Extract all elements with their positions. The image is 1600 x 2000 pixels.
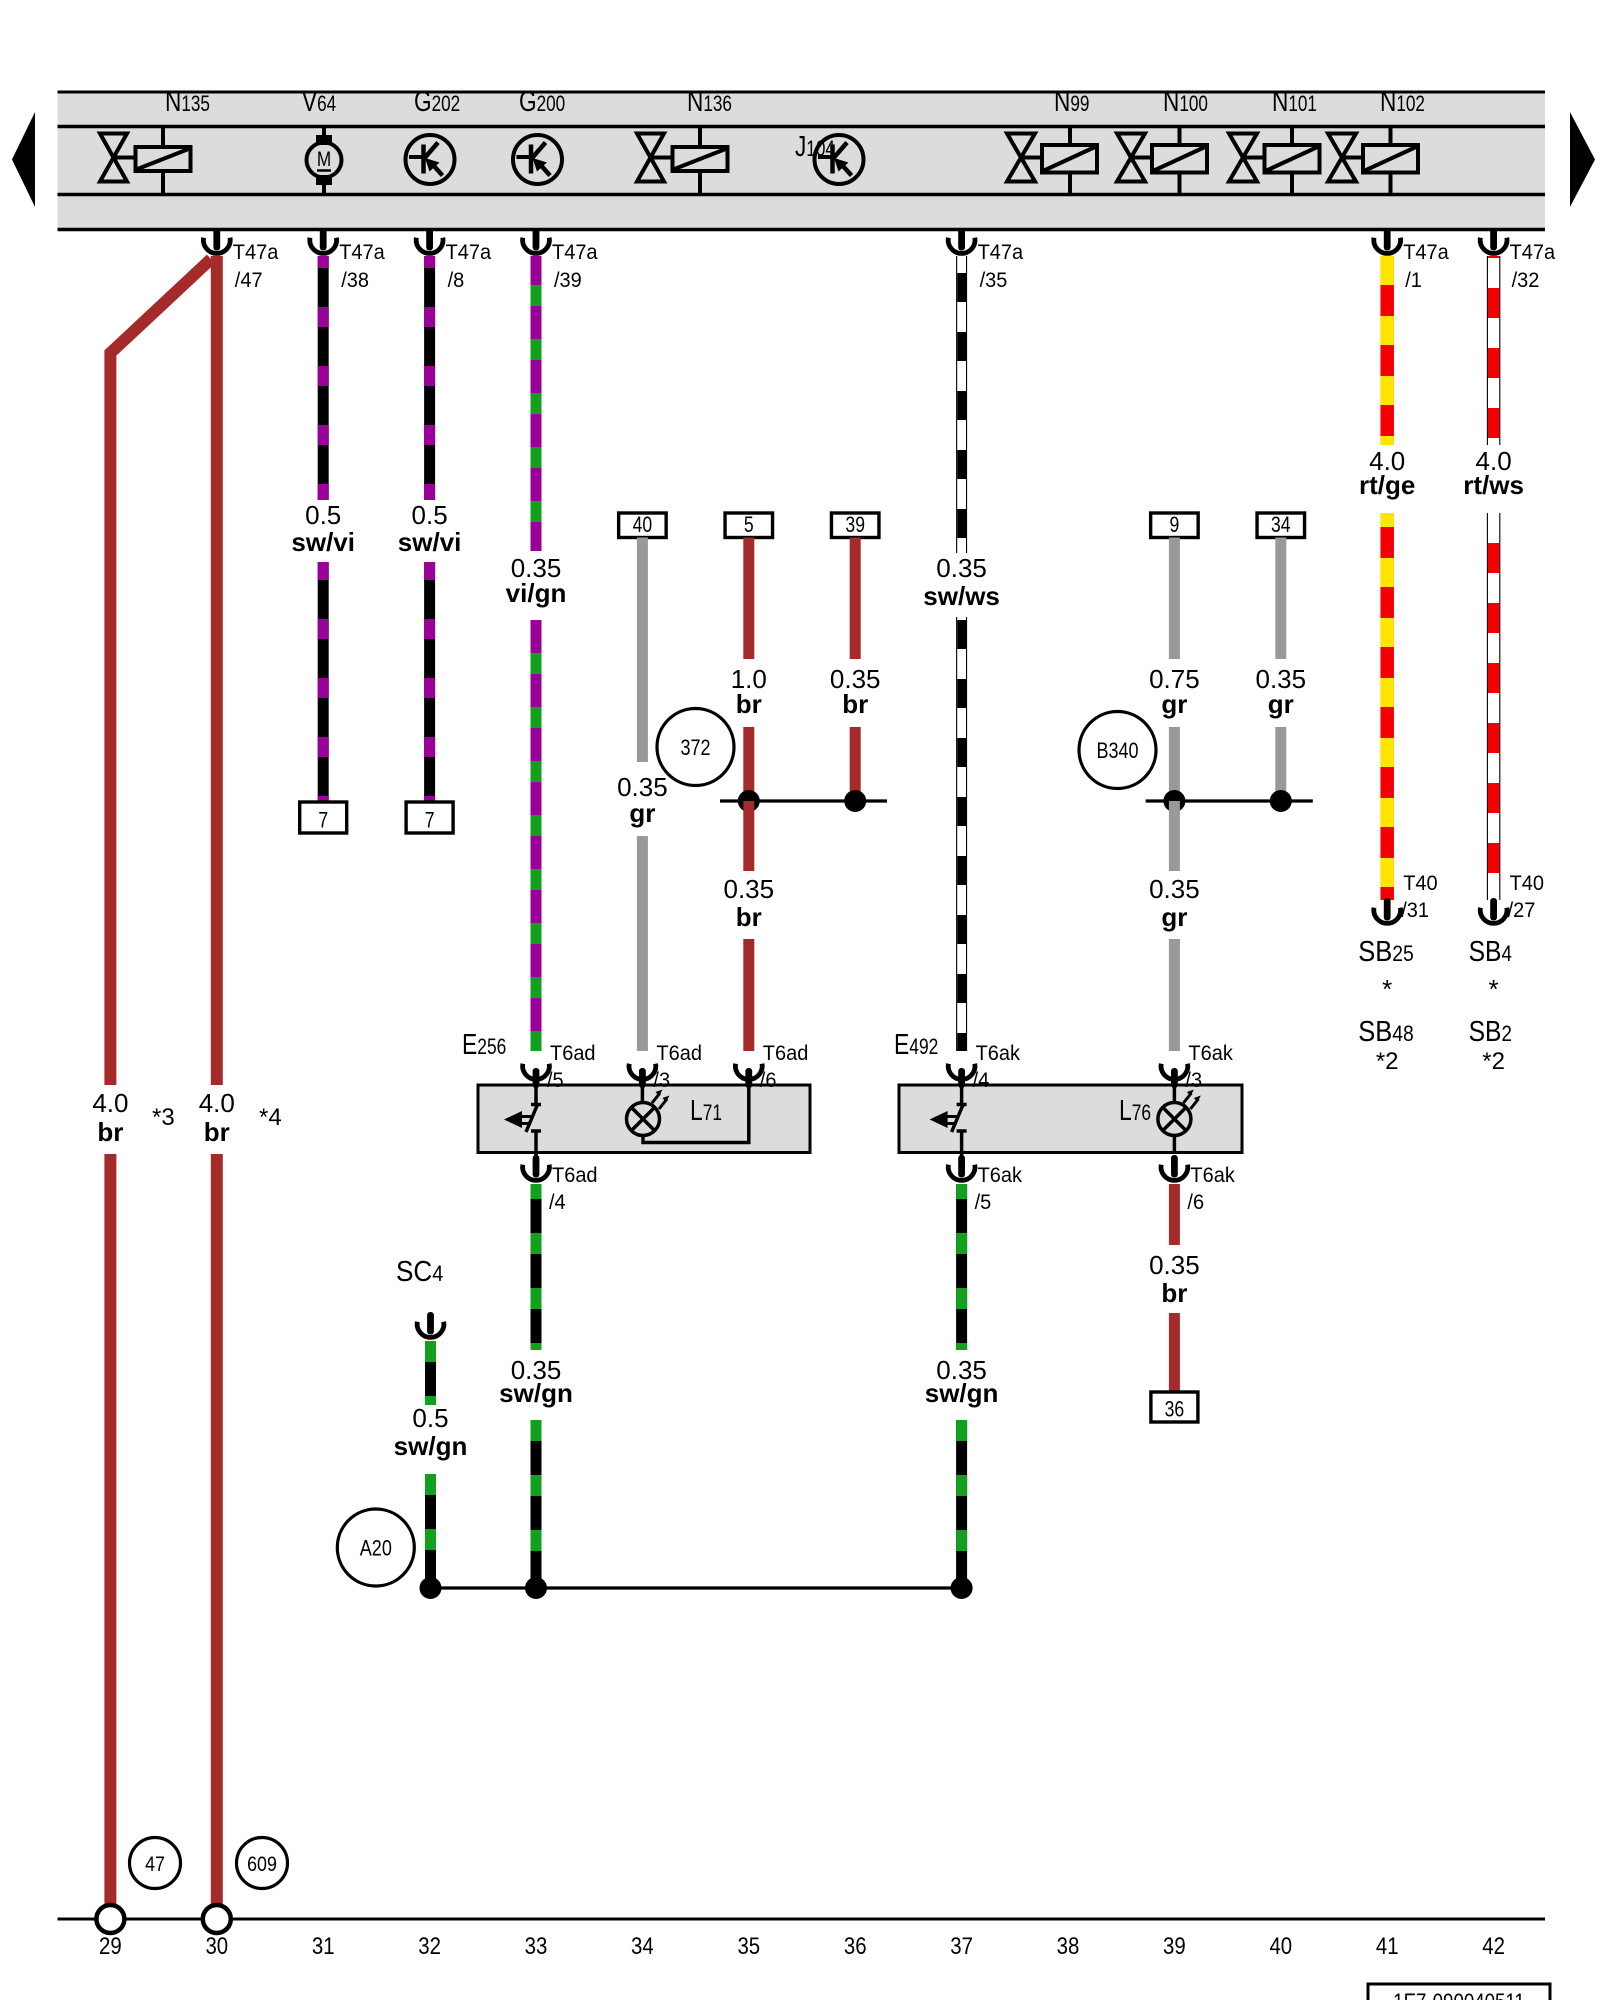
svg-text:40: 40 bbox=[633, 513, 653, 537]
wire 0.35 br track 35 to E256 pin 6 bbox=[743, 939, 754, 1051]
terminal box 5 bbox=[725, 513, 773, 538]
wire 0.35 sw/ws track 37 lower bbox=[956, 617, 967, 1051]
sensor G200 bbox=[513, 84, 565, 184]
svg-text:T6ad: T6ad bbox=[550, 1041, 596, 1065]
svg-text:*2: *2 bbox=[1482, 1048, 1505, 1075]
svg-text:29: 29 bbox=[99, 1932, 122, 1959]
svg-text:A20: A20 bbox=[360, 1537, 392, 1561]
wire 1.0 br track 35 to junction bbox=[743, 727, 754, 801]
svg-text:/1: /1 bbox=[1405, 268, 1422, 292]
svg-text:/27: /27 bbox=[1508, 898, 1536, 922]
svg-text:5: 5 bbox=[744, 513, 754, 537]
svg-text:M: M bbox=[317, 147, 331, 171]
svg-text:0.35: 0.35 bbox=[1149, 1250, 1200, 1280]
svg-text:br: br bbox=[842, 689, 868, 719]
wire 0.35 gr track 39 below junction bbox=[1169, 801, 1180, 871]
junction dot track 39 bbox=[1163, 790, 1185, 812]
switch/lamp unit E256 bbox=[478, 1085, 810, 1153]
svg-text:4.0: 4.0 bbox=[199, 1088, 235, 1118]
svg-text:sw/gn: sw/gn bbox=[499, 1378, 573, 1408]
svg-text:0.35: 0.35 bbox=[936, 553, 987, 583]
wire 0.35 gr track 34 lower bbox=[637, 836, 648, 1051]
banner inner line 2 bbox=[58, 193, 1546, 197]
label E256 bbox=[462, 1027, 506, 1060]
fuse label SB25 bbox=[1358, 934, 1414, 967]
wire 4.0 br track 30 lower segment bbox=[211, 1154, 223, 1904]
wire 4.0 rt/ge track 41 lower bbox=[1380, 513, 1394, 900]
connector T6ad/5 bbox=[523, 1041, 596, 1092]
track number 36 bbox=[844, 1932, 867, 1959]
label L76 bbox=[1119, 1093, 1151, 1126]
label E492 bbox=[894, 1027, 938, 1060]
wire 0.35 sw/gn track 33 upper bbox=[531, 1184, 542, 1350]
svg-text:39: 39 bbox=[845, 513, 865, 537]
wire 4.0 br diagonal from T47a/47 to track 29 bbox=[110, 259, 211, 1085]
wire 0.5 sw/vi track 31 lower bbox=[318, 562, 329, 806]
svg-text:34: 34 bbox=[631, 1932, 654, 1959]
connector T40/31 bbox=[1374, 871, 1438, 923]
svg-text:B340: B340 bbox=[1096, 739, 1138, 763]
svg-text:*2: *2 bbox=[1376, 1048, 1399, 1075]
junction dot track 37 bbox=[951, 1577, 973, 1599]
track number 30 bbox=[205, 1932, 228, 1959]
svg-text:sw/vi: sw/vi bbox=[291, 527, 355, 557]
fuse label SB2 bbox=[1469, 1015, 1512, 1047]
svg-text:*3: *3 bbox=[152, 1104, 175, 1131]
svg-text:/4: /4 bbox=[549, 1190, 566, 1214]
wire lamp L71 to pin 6 inside E256 bbox=[643, 1087, 749, 1143]
wire 0.5 sw/gn SC4 upper bbox=[425, 1341, 436, 1405]
switch symbol in E492 bbox=[960, 1085, 964, 1103]
wire 0.5 sw/gn SC4 lower bbox=[425, 1474, 436, 1588]
connector T47a/1 bbox=[1374, 228, 1449, 292]
svg-text:T47a: T47a bbox=[978, 240, 1024, 264]
svg-text:T6ad: T6ad bbox=[552, 1163, 598, 1187]
connector T47a/38 bbox=[310, 228, 385, 292]
svg-text:0.35: 0.35 bbox=[1149, 874, 1200, 904]
wire 0.35 br track 39 into box 36 bbox=[1169, 1313, 1180, 1395]
terminal box 39 bbox=[831, 513, 879, 538]
ground reference circle 47 bbox=[130, 1838, 181, 1889]
wire 0.35 gr track 34 upper bbox=[637, 538, 648, 763]
track number 40 bbox=[1269, 1932, 1292, 1959]
junction dot track 36 bbox=[844, 790, 866, 812]
track number 42 bbox=[1482, 1932, 1505, 1959]
svg-text:T6ak: T6ak bbox=[976, 1041, 1021, 1065]
wire 4.0 rt/ws track 42 upper bbox=[1487, 256, 1501, 445]
wire 0.35 sw/gn track 37 lower bbox=[956, 1420, 967, 1588]
svg-text:T6ak: T6ak bbox=[1190, 1163, 1235, 1187]
track number 41 bbox=[1376, 1932, 1399, 1959]
fuse label SB4 bbox=[1469, 935, 1512, 967]
wire 0.35 gr track 40 upper bbox=[1275, 538, 1286, 660]
right continuation arrow bbox=[1570, 112, 1595, 207]
svg-text:31: 31 bbox=[312, 1932, 335, 1959]
svg-text:37: 37 bbox=[950, 1932, 973, 1959]
svg-text:36: 36 bbox=[1165, 1398, 1185, 1422]
wire 0.35 br track 36 upper bbox=[850, 538, 861, 660]
label SC4 bbox=[396, 1255, 444, 1288]
wire 0.5 sw/vi track 31 upper bbox=[318, 256, 329, 500]
connector T47a/8 bbox=[416, 228, 491, 292]
label L71 bbox=[690, 1093, 722, 1126]
connector T47a/47 bbox=[203, 228, 278, 292]
svg-text:30: 30 bbox=[205, 1932, 228, 1959]
svg-text:T47a: T47a bbox=[446, 240, 492, 264]
svg-text:/32: /32 bbox=[1512, 268, 1540, 292]
svg-text:4.0: 4.0 bbox=[92, 1088, 128, 1118]
junction dot track 40 bbox=[1270, 790, 1292, 812]
svg-text:*: * bbox=[1489, 974, 1499, 1004]
left continuation arrow bbox=[12, 112, 35, 207]
connector T6ad/6 bbox=[735, 1041, 808, 1092]
banner top line bbox=[58, 91, 1546, 94]
track number 35 bbox=[737, 1932, 760, 1959]
svg-text:vi/gn: vi/gn bbox=[506, 578, 567, 608]
banner inner line 1 bbox=[58, 125, 1546, 129]
svg-text:T6ak: T6ak bbox=[1188, 1041, 1233, 1065]
svg-text:32: 32 bbox=[418, 1932, 441, 1959]
wire 0.5 sw/vi track 32 upper bbox=[424, 256, 435, 500]
svg-text:36: 36 bbox=[844, 1932, 867, 1959]
terminal ring track 29 bbox=[96, 1905, 124, 1933]
svg-text:/8: /8 bbox=[448, 268, 465, 292]
svg-text:br: br bbox=[736, 902, 762, 932]
ground reference circle 609 bbox=[237, 1838, 288, 1889]
svg-text:T47a: T47a bbox=[339, 240, 385, 264]
wire 0.35 br track 35 below junction bbox=[743, 801, 754, 871]
svg-text:gr: gr bbox=[1268, 689, 1294, 719]
svg-text:/4: /4 bbox=[973, 1068, 990, 1092]
svg-text:T40: T40 bbox=[1403, 871, 1437, 895]
svg-text:sw/vi: sw/vi bbox=[398, 527, 462, 557]
ground junction bus line bbox=[431, 1586, 962, 1589]
track number 34 bbox=[631, 1932, 654, 1959]
svg-text:41: 41 bbox=[1376, 1932, 1399, 1959]
connector SC4 bbox=[417, 1312, 444, 1337]
svg-text:gr: gr bbox=[1161, 689, 1187, 719]
wire 1.0 br track 35 upper bbox=[743, 538, 754, 660]
connector T6ak/6 bbox=[1161, 1155, 1235, 1214]
svg-text:/35: /35 bbox=[980, 268, 1008, 292]
svg-text:42: 42 bbox=[1482, 1932, 1505, 1959]
connector T6ak/5 bbox=[948, 1153, 1022, 1215]
wire 0.35 gr track 40 to junction bbox=[1275, 727, 1286, 801]
svg-text:/31: /31 bbox=[1401, 898, 1429, 922]
terminal box 7 track 31 bbox=[300, 802, 347, 833]
svg-text:/39: /39 bbox=[554, 268, 582, 292]
wire 4.0 rt/ws track 42 lower bbox=[1487, 513, 1501, 900]
svg-text:T40: T40 bbox=[1510, 871, 1544, 895]
terminal ring track 30 bbox=[203, 1905, 231, 1933]
solenoid valve N136 bbox=[637, 84, 732, 193]
control unit sensor J104 bbox=[795, 129, 864, 184]
svg-text:47: 47 bbox=[145, 1853, 165, 1877]
connector T6ak/3 bbox=[1161, 1041, 1233, 1092]
track number 37 bbox=[950, 1932, 973, 1959]
pump motor V64 bbox=[302, 84, 342, 194]
svg-text:sw/gn: sw/gn bbox=[925, 1378, 999, 1408]
sensor reference circle B340 bbox=[1079, 712, 1156, 789]
terminal box 34 bbox=[1257, 513, 1305, 538]
connector T6ad/3 bbox=[629, 1041, 702, 1092]
svg-text:0.35: 0.35 bbox=[723, 874, 774, 904]
svg-text:*4: *4 bbox=[259, 1104, 282, 1131]
junction bus line tracks 39-40 bbox=[1146, 799, 1313, 802]
wire 4.0 rt/ge track 41 upper bbox=[1380, 256, 1394, 445]
wire 0.35 sw/ws track 37 upper bbox=[956, 256, 967, 553]
svg-text:/6: /6 bbox=[760, 1068, 777, 1092]
wire 0.75 gr track 39 to junction bbox=[1169, 727, 1180, 801]
terminal box 40 bbox=[619, 513, 667, 538]
svg-text:T47a: T47a bbox=[552, 240, 598, 264]
solenoid valve N135 bbox=[100, 84, 210, 193]
switch symbol in E256 bbox=[534, 1085, 538, 1103]
svg-text:34: 34 bbox=[1271, 513, 1291, 537]
svg-text:0.5: 0.5 bbox=[412, 500, 448, 530]
svg-text:609: 609 bbox=[247, 1853, 277, 1877]
connector T47a/39 bbox=[523, 228, 598, 292]
track number 38 bbox=[1057, 1932, 1080, 1959]
wire 0.35 gr track 39 to E492 pin 3 bbox=[1169, 939, 1180, 1051]
svg-text:sw/gn: sw/gn bbox=[394, 1431, 468, 1461]
svg-text:372: 372 bbox=[680, 736, 710, 760]
svg-text:T6ad: T6ad bbox=[656, 1041, 702, 1065]
junction dot SC4 bbox=[420, 1577, 442, 1599]
svg-text:rt/ge: rt/ge bbox=[1359, 470, 1415, 500]
svg-text:T6ak: T6ak bbox=[978, 1163, 1023, 1187]
svg-text:br: br bbox=[204, 1117, 230, 1147]
solenoid valve N101 bbox=[1229, 84, 1320, 193]
track number 39 bbox=[1163, 1932, 1186, 1959]
solenoid valve N102 bbox=[1328, 84, 1425, 193]
switch/lamp unit E492 bbox=[899, 1085, 1242, 1153]
svg-text:1E7-090040511: 1E7-090040511 bbox=[1393, 1991, 1525, 2000]
sensor G202 bbox=[406, 84, 461, 184]
svg-text:T47a: T47a bbox=[1403, 240, 1449, 264]
component bus banner bbox=[58, 91, 1546, 229]
bottom rail line bbox=[58, 1918, 1546, 1921]
terminal box 7 track 32 bbox=[406, 802, 453, 833]
connector T6ak/4 bbox=[948, 1041, 1020, 1092]
lamp L71 bbox=[627, 1103, 660, 1136]
svg-text:T6ad: T6ad bbox=[763, 1041, 809, 1065]
wire 4.0 br track 30 upper segment bbox=[211, 256, 223, 1085]
svg-text:br: br bbox=[1161, 1278, 1187, 1308]
track number 32 bbox=[418, 1932, 441, 1959]
svg-text:39: 39 bbox=[1163, 1932, 1186, 1959]
connector T47a/35 bbox=[948, 228, 1023, 292]
wire 4.0 br track 29 lower segment bbox=[104, 1154, 116, 1904]
svg-text:40: 40 bbox=[1269, 1932, 1292, 1959]
wiring harness reference circle A20 bbox=[337, 1509, 414, 1586]
svg-text:*: * bbox=[1382, 974, 1392, 1004]
svg-text:gr: gr bbox=[1161, 902, 1187, 932]
svg-text:T47a: T47a bbox=[233, 240, 279, 264]
wire 0.5 sw/vi track 32 lower bbox=[424, 562, 435, 806]
svg-text:0.5: 0.5 bbox=[305, 500, 341, 530]
terminal box 9 bbox=[1151, 513, 1199, 538]
svg-text:rt/ws: rt/ws bbox=[1463, 470, 1524, 500]
svg-text:br: br bbox=[97, 1117, 123, 1147]
lamp L76 bbox=[1158, 1103, 1191, 1136]
connector T6ad/4 bbox=[523, 1153, 598, 1215]
svg-text:gr: gr bbox=[629, 798, 655, 828]
svg-text:9: 9 bbox=[1170, 513, 1180, 537]
drawing number box bbox=[1368, 1984, 1550, 2000]
connector T47a/32 bbox=[1480, 228, 1555, 292]
svg-text:0.5: 0.5 bbox=[412, 1403, 448, 1433]
track number 29 bbox=[99, 1932, 122, 1959]
svg-text:/3: /3 bbox=[653, 1068, 670, 1092]
wire 0.35 br track 39 to box 36 bbox=[1169, 1184, 1180, 1245]
svg-text:33: 33 bbox=[525, 1932, 548, 1959]
svg-text:/47: /47 bbox=[235, 268, 263, 292]
wire 0.35 sw/gn track 33 lower bbox=[531, 1420, 542, 1588]
wire 0.35 sw/gn track 37 upper bbox=[956, 1184, 967, 1350]
ground reference circle 372 bbox=[657, 709, 734, 786]
drawing number text bbox=[1393, 1991, 1525, 2000]
wire 0.75 gr track 39 upper bbox=[1169, 538, 1180, 660]
wire 0.35 vi/gn track 33 lower bbox=[531, 620, 542, 1051]
svg-text:br: br bbox=[736, 689, 762, 719]
banner bottom line bbox=[58, 228, 1546, 232]
solenoid valve N99 bbox=[1007, 84, 1097, 193]
svg-text:/38: /38 bbox=[341, 268, 369, 292]
connector T40/27 bbox=[1480, 871, 1544, 923]
svg-text:35: 35 bbox=[737, 1932, 760, 1959]
svg-text:sw/ws: sw/ws bbox=[923, 581, 1000, 611]
svg-text:7: 7 bbox=[318, 809, 328, 833]
fuse label SB48 bbox=[1358, 1014, 1414, 1047]
junction bus line tracks 35-36 bbox=[720, 799, 887, 802]
junction dot track 35 bbox=[738, 790, 760, 812]
svg-text:/5: /5 bbox=[975, 1190, 992, 1214]
track number 31 bbox=[312, 1932, 335, 1959]
svg-text:/3: /3 bbox=[1185, 1068, 1202, 1092]
terminal box 36 bbox=[1151, 1392, 1198, 1422]
svg-text:/6: /6 bbox=[1187, 1190, 1204, 1214]
svg-text:T47a: T47a bbox=[1510, 240, 1556, 264]
svg-text:38: 38 bbox=[1057, 1932, 1080, 1959]
svg-text:/5: /5 bbox=[547, 1068, 564, 1092]
svg-text:7: 7 bbox=[425, 809, 435, 833]
solenoid valve N100 bbox=[1117, 84, 1208, 193]
wire 0.35 vi/gn track 33 upper bbox=[531, 256, 542, 551]
track number 33 bbox=[525, 1932, 548, 1959]
wire 0.35 br track 36 to junction bbox=[850, 727, 861, 801]
junction dot track 33 bbox=[525, 1577, 547, 1599]
